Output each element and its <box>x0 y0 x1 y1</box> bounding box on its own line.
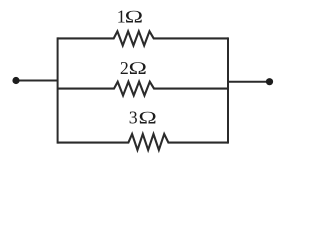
resistor R3 3ohm (bottom branch with zigzag) <box>58 134 228 150</box>
wire: right vertical bus <box>227 38 229 142</box>
svg-text:3: 3 <box>129 108 138 128</box>
svg-text:Ω: Ω <box>128 58 147 78</box>
node: left terminal dot <box>12 77 19 84</box>
wire: right terminal lead <box>228 81 270 83</box>
node: right terminal dot <box>266 78 273 85</box>
wire: left terminal lead <box>16 80 58 82</box>
wire: left vertical bus <box>57 38 59 142</box>
svg-text:Ω: Ω <box>124 7 143 27</box>
resistor R1 1ohm (top branch with zigzag) <box>58 31 228 45</box>
resistor R2 2ohm (middle branch with zigzag) <box>58 82 228 96</box>
svg-text:Ω: Ω <box>138 108 157 128</box>
